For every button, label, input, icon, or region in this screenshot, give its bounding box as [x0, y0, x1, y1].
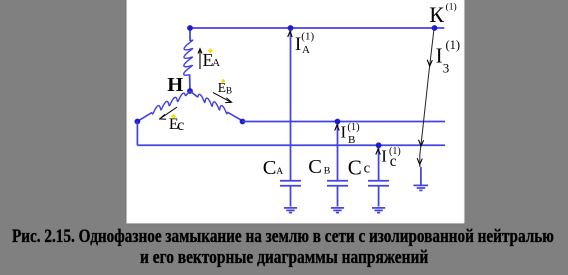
svg-text:I: I: [341, 122, 347, 141]
svg-text:3: 3: [443, 60, 450, 75]
capacitor CC: [368, 181, 389, 207]
inductor coil A: [184, 40, 193, 75]
svg-text:(1): (1): [347, 122, 360, 133]
node K dot: [432, 25, 438, 31]
arrow I3 middle: [419, 140, 424, 146]
svg-text:С: С: [348, 155, 362, 179]
svg-text:I: I: [436, 44, 443, 68]
wire current IB branch: [337, 122, 339, 181]
svg-text:с: с: [390, 153, 397, 170]
node IA dot: [288, 25, 294, 31]
arrow IB: [335, 125, 340, 131]
wire phase C down segment: [136, 122, 138, 146]
inductor coil C: [137, 91, 190, 121]
label CA: [263, 157, 284, 179]
svg-text:(1): (1): [446, 38, 461, 52]
capacitor CB: [327, 181, 348, 207]
label IC(1): [381, 146, 400, 170]
svg-text:А: А: [302, 44, 310, 56]
svg-text:Н: Н: [167, 74, 183, 96]
node B dot: [240, 119, 246, 125]
arrow IC: [376, 149, 381, 155]
svg-text:с: с: [364, 161, 371, 177]
caption line 2: [140, 248, 428, 269]
label I3(1): [436, 38, 460, 75]
svg-text:К: К: [429, 2, 444, 27]
ground I3: [414, 185, 429, 190]
wire current IC branch: [378, 145, 380, 180]
svg-text:с: с: [177, 117, 184, 134]
wire fault I3 slant: [420, 31, 434, 167]
wire phase A top: [190, 27, 444, 29]
svg-text:(1): (1): [446, 2, 457, 13]
caption line 1: [12, 227, 554, 248]
svg-text:В: В: [348, 134, 355, 146]
svg-text:I: I: [381, 146, 387, 165]
label CB: [308, 156, 331, 178]
wire phase B: [243, 121, 446, 123]
wire I3 ground lead: [420, 167, 422, 185]
label CC: [348, 155, 371, 179]
label IA(1): [295, 31, 315, 57]
svg-text:I: I: [295, 34, 301, 55]
svg-text:С: С: [263, 157, 277, 179]
svg-text:А: А: [276, 167, 283, 177]
label EB with dot: [213, 79, 232, 103]
label EC with dot: [160, 107, 185, 134]
ground CA: [284, 208, 297, 213]
ground CB: [331, 208, 344, 213]
wire coil A top lead: [189, 28, 191, 41]
svg-text:А: А: [212, 57, 220, 69]
svg-text:С: С: [308, 156, 322, 178]
svg-text:В: В: [324, 166, 331, 177]
arrow I3 lower: [417, 158, 422, 164]
label IB(1): [341, 122, 361, 146]
svg-text:Е: Е: [218, 80, 226, 95]
node A top dot: [187, 25, 193, 31]
label K(1): [429, 2, 456, 28]
wire phase C: [137, 144, 445, 146]
node H dot: [187, 88, 193, 94]
node IB dot: [335, 119, 341, 125]
arrow I3 upper: [427, 60, 432, 66]
node IC dot: [376, 142, 382, 148]
white drawing area: [126, 0, 466, 224]
label EA with dot: [198, 48, 220, 70]
wire current IA branch: [290, 28, 292, 181]
svg-text:В: В: [226, 87, 232, 97]
svg-text:(1): (1): [301, 31, 314, 43]
ground CC: [372, 208, 385, 213]
inductor coil B: [190, 91, 243, 121]
label H: [167, 74, 183, 96]
capacitor CA: [280, 181, 301, 207]
arrow IA: [288, 32, 293, 38]
wire coil A bottom lead: [189, 74, 191, 91]
node C dot: [135, 119, 141, 125]
